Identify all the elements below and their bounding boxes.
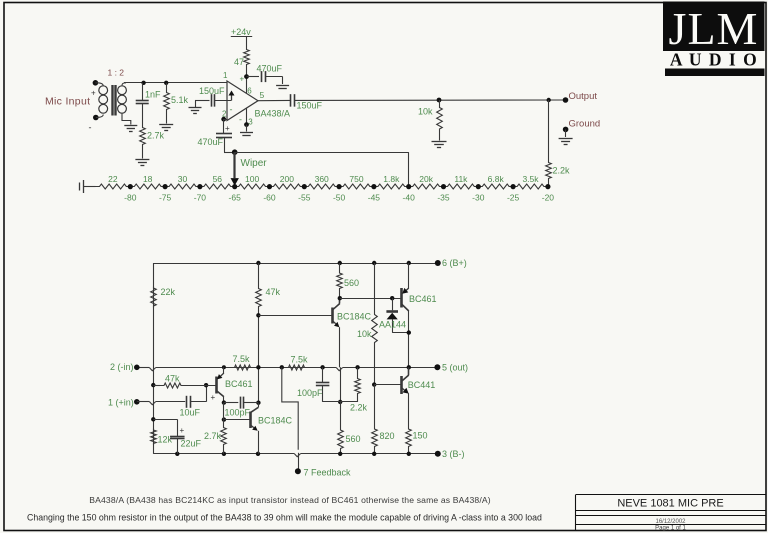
svg-text:7.5k: 7.5k — [233, 354, 251, 364]
svg-text:750: 750 — [349, 174, 363, 184]
svg-text:BC461: BC461 — [409, 294, 437, 304]
svg-text:10k: 10k — [418, 107, 433, 117]
svg-text:11k: 11k — [454, 174, 468, 184]
svg-text:-55: -55 — [298, 193, 311, 203]
svg-text:+: + — [180, 426, 185, 435]
svg-text:BA438/A (BA438 has BC214KC as: BA438/A (BA438 has BC214KC as input tran… — [89, 495, 491, 505]
svg-text:22uF: 22uF — [181, 439, 202, 449]
svg-text:-: - — [230, 105, 233, 115]
svg-text:150uF: 150uF — [199, 86, 225, 96]
svg-text:-50: -50 — [333, 193, 346, 203]
svg-text:+: + — [225, 124, 230, 133]
svg-text:5 (out): 5 (out) — [442, 363, 468, 373]
svg-text:470uF: 470uF — [257, 64, 283, 74]
svg-text:5: 5 — [260, 90, 265, 100]
svg-text:100pF: 100pF — [225, 408, 251, 418]
svg-text:2 (-in): 2 (-in) — [110, 362, 134, 372]
svg-text:7 Feedback: 7 Feedback — [304, 468, 352, 478]
svg-text:1.8k: 1.8k — [383, 174, 400, 184]
svg-text:NEVE 1081 MIC PRE: NEVE 1081 MIC PRE — [617, 498, 723, 510]
svg-text:3.5k: 3.5k — [522, 174, 539, 184]
svg-text:6: 6 — [247, 87, 252, 96]
svg-text:56: 56 — [213, 174, 223, 184]
svg-text:BC184C: BC184C — [258, 416, 293, 426]
svg-text:+: + — [211, 393, 216, 402]
svg-text:-: - — [89, 123, 92, 133]
svg-text:-: - — [239, 115, 242, 125]
svg-text:820: 820 — [380, 431, 395, 441]
svg-text:150: 150 — [413, 431, 428, 441]
svg-text:18: 18 — [143, 174, 153, 184]
svg-text:AA144: AA144 — [379, 320, 406, 330]
svg-text:560: 560 — [346, 434, 361, 444]
svg-text:1 (+in): 1 (+in) — [108, 398, 134, 408]
svg-text:10uF: 10uF — [180, 408, 201, 418]
svg-text:6.8k: 6.8k — [488, 174, 505, 184]
svg-text:30: 30 — [178, 174, 188, 184]
svg-text:360: 360 — [315, 174, 329, 184]
svg-text:Wiper: Wiper — [241, 158, 268, 169]
svg-text:22: 22 — [108, 174, 118, 184]
svg-text:1nF: 1nF — [145, 90, 161, 100]
svg-text:Mic Input: Mic Input — [45, 96, 90, 108]
svg-text:-70: -70 — [194, 193, 207, 203]
svg-text:-75: -75 — [159, 193, 172, 203]
svg-text:47k: 47k — [266, 287, 281, 297]
svg-text:+: + — [240, 75, 245, 84]
svg-text:-25: -25 — [507, 193, 520, 203]
svg-text:3: 3 — [248, 118, 253, 127]
svg-text:-20: -20 — [542, 193, 555, 203]
svg-text:1 : 2: 1 : 2 — [108, 68, 125, 78]
svg-text:16/12/2002: 16/12/2002 — [655, 519, 686, 525]
svg-text:1: 1 — [223, 71, 228, 80]
svg-text:+: + — [91, 89, 96, 98]
svg-text:47k: 47k — [165, 374, 180, 384]
svg-text:5.1k: 5.1k — [171, 95, 189, 105]
svg-text:20k: 20k — [419, 174, 433, 184]
svg-text:Changing the 150 ohm resistor: Changing the 150 ohm resistor in the out… — [27, 513, 542, 523]
svg-text:2.2k: 2.2k — [350, 403, 368, 413]
svg-text:100: 100 — [245, 174, 259, 184]
svg-text:-45: -45 — [368, 193, 381, 203]
svg-text:2.7k: 2.7k — [147, 131, 165, 141]
svg-text:-40: -40 — [403, 193, 416, 203]
svg-text:BC184C: BC184C — [337, 312, 372, 322]
svg-text:3 (B-): 3 (B-) — [442, 449, 465, 459]
svg-text:-30: -30 — [472, 193, 485, 203]
svg-text:10k: 10k — [357, 329, 372, 339]
svg-text:BA438/A: BA438/A — [255, 109, 291, 119]
svg-text:6 (B+): 6 (B+) — [442, 258, 467, 268]
svg-text:22k: 22k — [161, 287, 176, 297]
svg-text:7.5k: 7.5k — [291, 355, 309, 365]
svg-text:Output: Output — [569, 91, 598, 102]
svg-text:2.7k: 2.7k — [204, 431, 222, 441]
svg-text:2.2k: 2.2k — [553, 166, 571, 176]
svg-text:100pF: 100pF — [297, 388, 323, 398]
svg-text:150uF: 150uF — [297, 101, 323, 111]
svg-text:Ground: Ground — [569, 119, 601, 130]
svg-text:+24v: +24v — [231, 27, 251, 37]
svg-text:BC461: BC461 — [225, 379, 253, 389]
svg-text:A U D I O: A U D I O — [670, 50, 758, 70]
svg-text:47: 47 — [234, 57, 244, 67]
svg-text:-80: -80 — [124, 193, 137, 203]
svg-text:BC441: BC441 — [408, 380, 436, 390]
svg-text:-35: -35 — [437, 193, 450, 203]
svg-text:560: 560 — [344, 278, 359, 288]
svg-text:JLM: JLM — [669, 3, 759, 54]
svg-text:470uF: 470uF — [198, 137, 224, 147]
svg-text:-65: -65 — [229, 193, 242, 203]
svg-text:Page 1 of 1: Page 1 of 1 — [655, 526, 686, 532]
svg-text:200: 200 — [280, 174, 294, 184]
svg-text:-60: -60 — [263, 193, 276, 203]
